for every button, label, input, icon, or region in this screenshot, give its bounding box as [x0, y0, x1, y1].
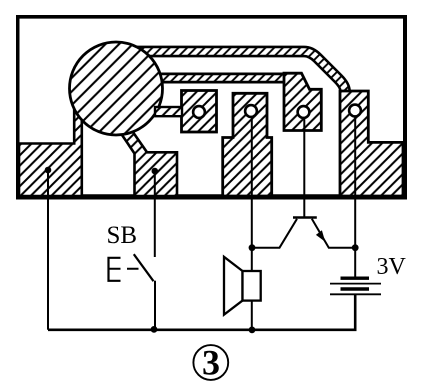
svg-text:SB: SB [107, 222, 138, 249]
wire w3 from contact 2 through speaker to rail [251, 117, 253, 330]
contact bar from ball to block 1 [155, 107, 182, 116]
speaker horn [224, 257, 243, 315]
wire w2 from block 2 down to switch [154, 171, 156, 257]
outer box border of mechanism housing [16, 15, 407, 200]
contact block 3 (on strip B) [284, 73, 321, 130]
svg-text:3V: 3V [377, 254, 407, 280]
center pillar 3 (T shaped) [223, 93, 272, 196]
emitter arrowhead [316, 230, 325, 242]
transistor collector leg and wire to speaker node [252, 219, 297, 248]
transistor emitter leg with arrow to battery node [312, 219, 355, 248]
contact circle 2 [245, 105, 257, 117]
battery plate 1 short [341, 277, 370, 280]
bottom-left block with column [19, 104, 82, 196]
bottom rail wire [48, 294, 355, 330]
wire w5 from contact 4 to battery [354, 117, 356, 278]
switch SB lower wire [154, 281, 156, 331]
node dot on block 2 [152, 168, 159, 175]
contact strip A (outer band to right pillar) [116, 52, 345, 97]
switch SB dashed actuator link [109, 268, 144, 270]
switch SB pushbutton bracket [109, 258, 121, 281]
contact block 1 [182, 91, 217, 133]
wire w4 from contact 3 to transistor base [303, 118, 305, 217]
figure number circle 3 [193, 345, 228, 380]
speaker coil box [243, 271, 261, 301]
junction dot emitter/battery [352, 244, 359, 251]
svg-text:3: 3 [202, 342, 220, 382]
battery plate 3 short [341, 287, 370, 290]
node dot on left block [45, 167, 52, 174]
wire w1 from left block to bottom rail [47, 170, 49, 330]
switch SB blade [134, 254, 154, 281]
contact circle 1 [193, 106, 205, 118]
battery plate 4 long [330, 293, 381, 295]
battery plate 2 long [330, 283, 381, 285]
right pillar 4 with bottom-right base [340, 91, 403, 196]
ball (hatched circle) [70, 42, 163, 135]
funnel block 2 under ball [120, 130, 177, 196]
contact circle 4 [349, 105, 361, 117]
contact circle 3 [298, 106, 310, 118]
transistor base bar [293, 216, 317, 219]
junction dot speaker on rail [249, 327, 256, 334]
contact strip B (inner band to block 3) [116, 73, 292, 84]
junction dot speaker/collector [249, 244, 256, 251]
junction dot SB on rail [151, 326, 158, 333]
